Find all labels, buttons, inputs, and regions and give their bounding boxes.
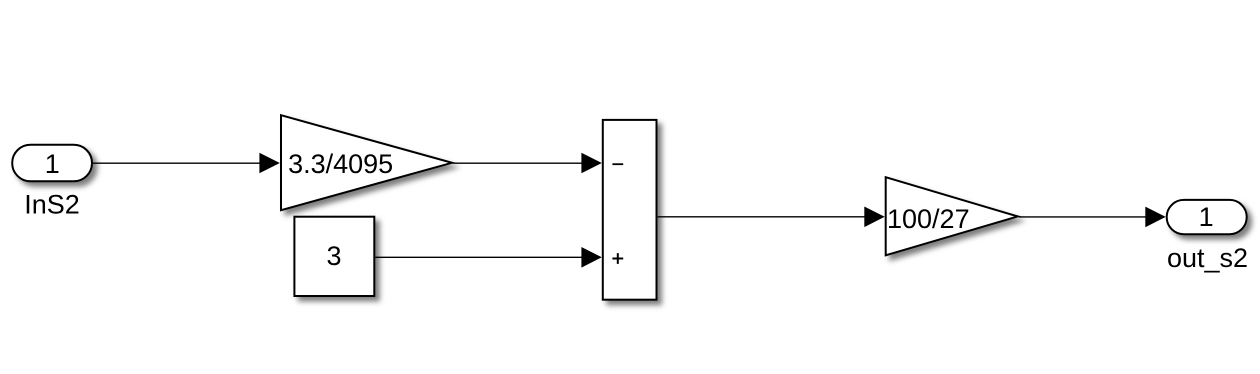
arrowhead at Sum input 2 xyxy=(581,247,601,268)
arrowhead at G1 input xyxy=(259,153,279,174)
arrowhead at outport xyxy=(1145,207,1165,228)
sum block S1 xyxy=(603,120,657,300)
svg-text:1: 1 xyxy=(1199,202,1214,232)
constant block C1 value 3 xyxy=(294,217,374,296)
wire Sum to gain G2 xyxy=(658,216,883,218)
wire In1 to gain G1 xyxy=(93,162,278,164)
svg-text:3: 3 xyxy=(326,241,341,271)
svg-text:3.3/4095: 3.3/4095 xyxy=(288,149,393,179)
arrowhead at Sum input 1 xyxy=(581,153,601,174)
svg-text:100/27: 100/27 xyxy=(887,204,970,234)
wire G2 to outport xyxy=(1019,216,1164,218)
svg-text:InS2: InS2 xyxy=(24,189,80,219)
arrowhead at G2 input xyxy=(864,207,884,228)
inport block In1 xyxy=(12,145,92,182)
minus sign xyxy=(612,163,623,165)
svg-text:out_s2: out_s2 xyxy=(1167,243,1248,273)
wire G1 to Sum input 1 xyxy=(453,162,600,164)
plus sign xyxy=(612,253,623,264)
svg-text:1: 1 xyxy=(45,149,60,179)
wire C1 to Sum input 2 xyxy=(375,256,600,258)
gain G1 3.3/4095 xyxy=(281,115,452,210)
gain G2 100/27 xyxy=(886,177,1018,255)
outport block Out1 xyxy=(1167,200,1247,234)
